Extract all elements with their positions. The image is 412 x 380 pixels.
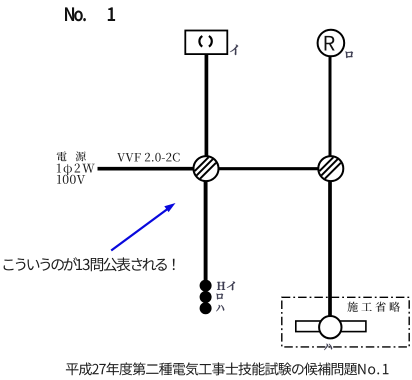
wire: joint box 2 down to fluorescent lamp — [328, 169, 332, 327]
label ハ — [324, 344, 332, 350]
cable label VVF 2.0-2C — [117, 153, 180, 162]
annotation text — [4, 257, 175, 271]
construction-omitted dashed box 施工省略 — [282, 297, 409, 347]
title No. 1 — [65, 7, 115, 21]
lamp receptacle R (ロ) — [318, 30, 345, 57]
label 施工省略 — [347, 302, 400, 312]
wire: ceiling light to joint box 1 — [205, 54, 209, 168]
switch ハ — [200, 302, 212, 314]
ceiling light fixture (box with parens) イ — [185, 31, 227, 55]
joint box 1 (hatched circle) — [194, 156, 219, 181]
annotation arrow (blue) — [111, 203, 175, 251]
joint box 2 (hatched circle) — [318, 156, 343, 181]
label ハ — [216, 305, 224, 311]
wire: joint box 1 down to switches — [204, 169, 208, 285]
fluorescent lamp fixture ハ — [296, 316, 366, 338]
label ロ — [216, 294, 223, 300]
wire: power feed — [98, 167, 207, 171]
switch イ (with H pilot) — [200, 280, 212, 292]
caption 平成27年度... — [66, 362, 389, 375]
label イ — [230, 45, 238, 55]
label ロ — [345, 52, 353, 59]
label Hイ — [217, 282, 225, 290]
wire: joint box 1 to joint box 2 — [206, 167, 331, 170]
switch ロ — [200, 291, 212, 303]
power source label 電源 1φ2W 100V — [57, 151, 95, 184]
wire: lamp receptacle to joint box 2 — [329, 57, 332, 168]
